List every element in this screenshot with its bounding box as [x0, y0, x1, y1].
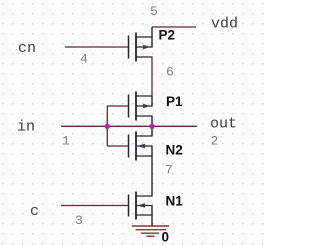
svg-text:0: 0	[162, 230, 170, 245]
svg-text:3: 3	[75, 213, 83, 228]
svg-text:5: 5	[150, 4, 158, 19]
svg-text:6: 6	[166, 65, 174, 80]
svg-text:P1: P1	[166, 94, 183, 109]
svg-text:N2: N2	[166, 143, 183, 158]
svg-text:P2: P2	[159, 28, 176, 43]
svg-text:c: c	[30, 203, 39, 220]
svg-text:2: 2	[211, 134, 219, 149]
svg-text:7: 7	[165, 163, 173, 178]
svg-text:1: 1	[62, 134, 70, 149]
svg-text:vdd: vdd	[211, 16, 238, 33]
svg-text:cn: cn	[18, 40, 36, 57]
svg-text:in: in	[17, 119, 35, 136]
svg-text:4: 4	[80, 52, 88, 67]
svg-text:out: out	[210, 116, 237, 133]
svg-text:N1: N1	[166, 194, 184, 209]
